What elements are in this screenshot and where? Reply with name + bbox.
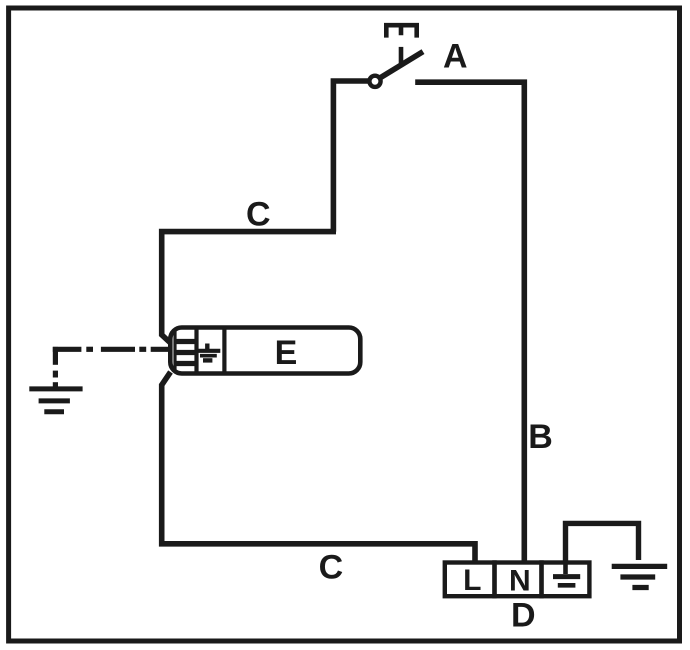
svg-text:B: B (528, 418, 553, 456)
wire from switch pivot down-left to upper C wire (333, 81, 368, 232)
svg-text:C: C (319, 549, 344, 587)
svg-text:C: C (246, 196, 271, 234)
ground symbol right (612, 566, 668, 587)
wire B from switch right contact down to terminal N (415, 82, 524, 563)
svg-text:A: A (443, 38, 468, 76)
lamp E cap inner line (173, 330, 176, 372)
earth terminal symbol (553, 564, 580, 585)
switch A manual actuator symbol (384, 24, 419, 38)
lamp E internal earth symbol (197, 344, 221, 361)
wire C lower: lamp bottom to terminal L (162, 372, 475, 563)
switch A lever (381, 52, 424, 78)
lamp E outer body (170, 328, 360, 374)
ground symbol left (29, 389, 82, 412)
switch A actuator link (399, 47, 404, 64)
svg-text:L: L (463, 564, 481, 597)
terminal block D: earth terminal box (542, 563, 590, 597)
lamp E filament ladder bars (177, 342, 197, 364)
lamp E divider 1 (194, 328, 198, 374)
switch A pivot terminal (369, 76, 380, 87)
terminal block D: terminal N box (495, 563, 542, 597)
dash-dot earth lead from lamp cap to left ground (53, 347, 169, 387)
wire C upper horizontal (162, 232, 336, 343)
svg-text:E: E (275, 334, 298, 372)
earth wire from terminal block to right ground (566, 523, 639, 563)
terminal block D: terminal L box (445, 563, 495, 597)
lamp E divider 2 (222, 328, 226, 374)
svg-text:D: D (511, 597, 536, 635)
svg-text:N: N (509, 565, 531, 598)
